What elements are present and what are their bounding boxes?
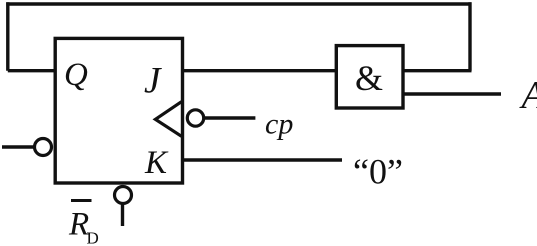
overline of RD [71,199,92,202]
svg-text:cp: cp [265,108,293,141]
wire feedback: right vertical [468,2,471,70]
clock edge triangle on flip-flop right edge [155,102,181,137]
wire left input to bubble [2,145,34,148]
svg-text:J: J [144,61,162,102]
svg-text:&: & [355,58,383,98]
svg-text:“0”: “0” [353,152,403,192]
svg-text:K: K [144,145,169,181]
svg-text:A: A [519,73,537,116]
clock inversion bubble [187,110,203,126]
svg-text:D: D [87,228,99,246]
wire Q output feedback: top horizontal [6,2,471,5]
wire feedback: left vertical [6,2,9,70]
wire J-level: flip-flop right edge to AND gate, and AND gate to feedback vertical [181,69,472,72]
AND gate box [336,46,403,108]
JK flip-flop box U1 [55,38,182,183]
left input inversion bubble [35,139,52,156]
wire clock cp [204,116,255,119]
wire Q output to flip-flop left edge [8,69,58,72]
wire RD stem below bottom bubble [121,204,124,226]
wire K input [181,158,342,161]
RD inversion bubble at bottom [115,187,132,204]
wire AND output to A [401,92,501,95]
svg-text:Q: Q [64,57,88,93]
